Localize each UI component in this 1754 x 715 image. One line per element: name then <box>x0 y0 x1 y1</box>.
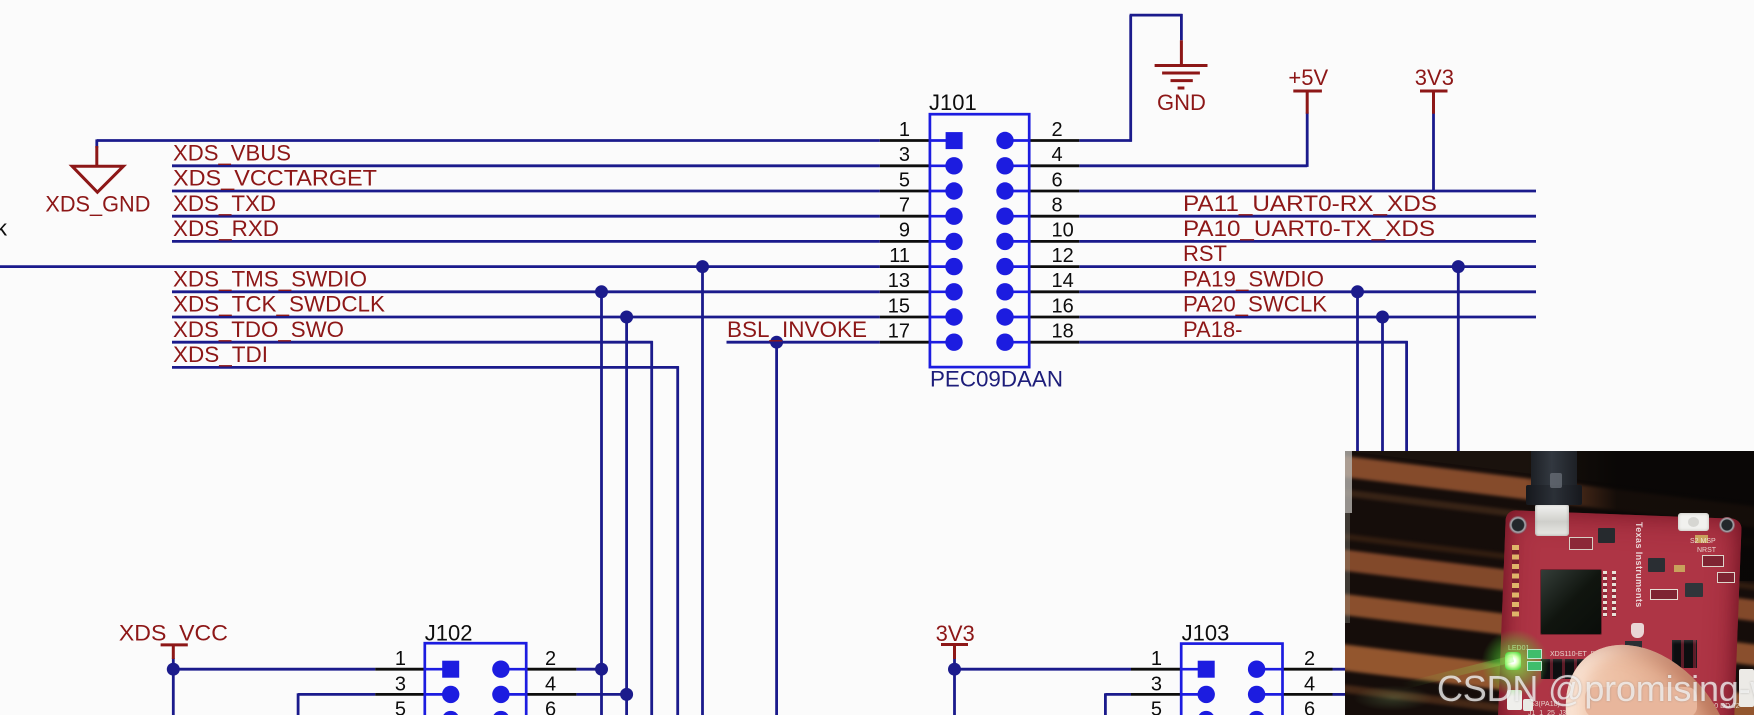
svg-text:PA10_UART0-TX_XDS: PA10_UART0-TX_XDS <box>1183 216 1435 241</box>
svg-text:3: 3 <box>1151 673 1162 695</box>
svg-text:XDS_TMS_SWDIO: XDS_TMS_SWDIO <box>173 266 367 291</box>
svg-text:5: 5 <box>395 699 406 715</box>
svg-text:PA11_UART0-RX_XDS: PA11_UART0-RX_XDS <box>1183 191 1437 216</box>
svg-text:4: 4 <box>1052 144 1063 166</box>
svg-text:3: 3 <box>899 144 910 166</box>
svg-text:PA20_SWCLK: PA20_SWCLK <box>1183 292 1327 317</box>
svg-text:10: 10 <box>1052 220 1074 242</box>
svg-text:XDS_VCC: XDS_VCC <box>119 621 228 646</box>
svg-text:XDS_TXD: XDS_TXD <box>173 191 276 216</box>
svg-text:2: 2 <box>1052 119 1063 141</box>
svg-text:XDS_VBUS: XDS_VBUS <box>173 140 291 165</box>
svg-text:BSL_INVOKE: BSL_INVOKE <box>727 317 867 342</box>
svg-text:12: 12 <box>1052 245 1074 267</box>
svg-text:GND: GND <box>1157 90 1206 115</box>
svg-text:k: k <box>0 216 8 241</box>
svg-text:14: 14 <box>1052 270 1074 292</box>
svg-text:1: 1 <box>899 119 910 141</box>
svg-text:4: 4 <box>1304 673 1315 695</box>
svg-text:5: 5 <box>1151 699 1162 715</box>
svg-text:PA19_SWDIO: PA19_SWDIO <box>1183 266 1324 291</box>
svg-text:XDS_TDI: XDS_TDI <box>173 342 268 367</box>
svg-text:XDS_GND: XDS_GND <box>45 192 150 217</box>
svg-text:7: 7 <box>899 195 910 217</box>
svg-text:3: 3 <box>395 673 406 695</box>
svg-text:17: 17 <box>888 321 910 343</box>
svg-text:2: 2 <box>545 648 556 670</box>
svg-text:4: 4 <box>545 673 556 695</box>
svg-text:13: 13 <box>888 270 910 292</box>
svg-text:J101: J101 <box>929 90 977 115</box>
svg-text:9: 9 <box>899 220 910 242</box>
svg-text:RST: RST <box>1183 241 1227 266</box>
svg-text:6: 6 <box>545 699 556 715</box>
svg-text:XDS_TCK_SWDCLK: XDS_TCK_SWDCLK <box>173 292 385 317</box>
svg-text:J102: J102 <box>425 621 473 646</box>
svg-text:6: 6 <box>1052 169 1063 191</box>
svg-text:8: 8 <box>1052 195 1063 217</box>
svg-text:3V3: 3V3 <box>936 621 975 646</box>
svg-text:15: 15 <box>888 295 910 317</box>
svg-text:PEC09DAAN: PEC09DAAN <box>930 367 1063 392</box>
svg-text:3V3: 3V3 <box>1415 65 1454 90</box>
svg-text:XDS_VCCTARGET: XDS_VCCTARGET <box>173 166 377 191</box>
svg-text:5: 5 <box>899 169 910 191</box>
svg-text:PA18-: PA18- <box>1183 317 1243 342</box>
svg-text:11: 11 <box>889 245 910 267</box>
svg-text:J103: J103 <box>1182 620 1230 645</box>
svg-text:6: 6 <box>1304 699 1315 715</box>
svg-text:XDS_TDO_SWO: XDS_TDO_SWO <box>173 317 344 342</box>
svg-text:1: 1 <box>395 648 406 670</box>
svg-text:+5V: +5V <box>1288 65 1328 90</box>
svg-text:2: 2 <box>1304 648 1315 670</box>
svg-text:18: 18 <box>1052 321 1074 343</box>
svg-text:1: 1 <box>1151 648 1162 670</box>
svg-text:XDS_RXD: XDS_RXD <box>173 216 279 241</box>
svg-text:16: 16 <box>1052 295 1074 317</box>
